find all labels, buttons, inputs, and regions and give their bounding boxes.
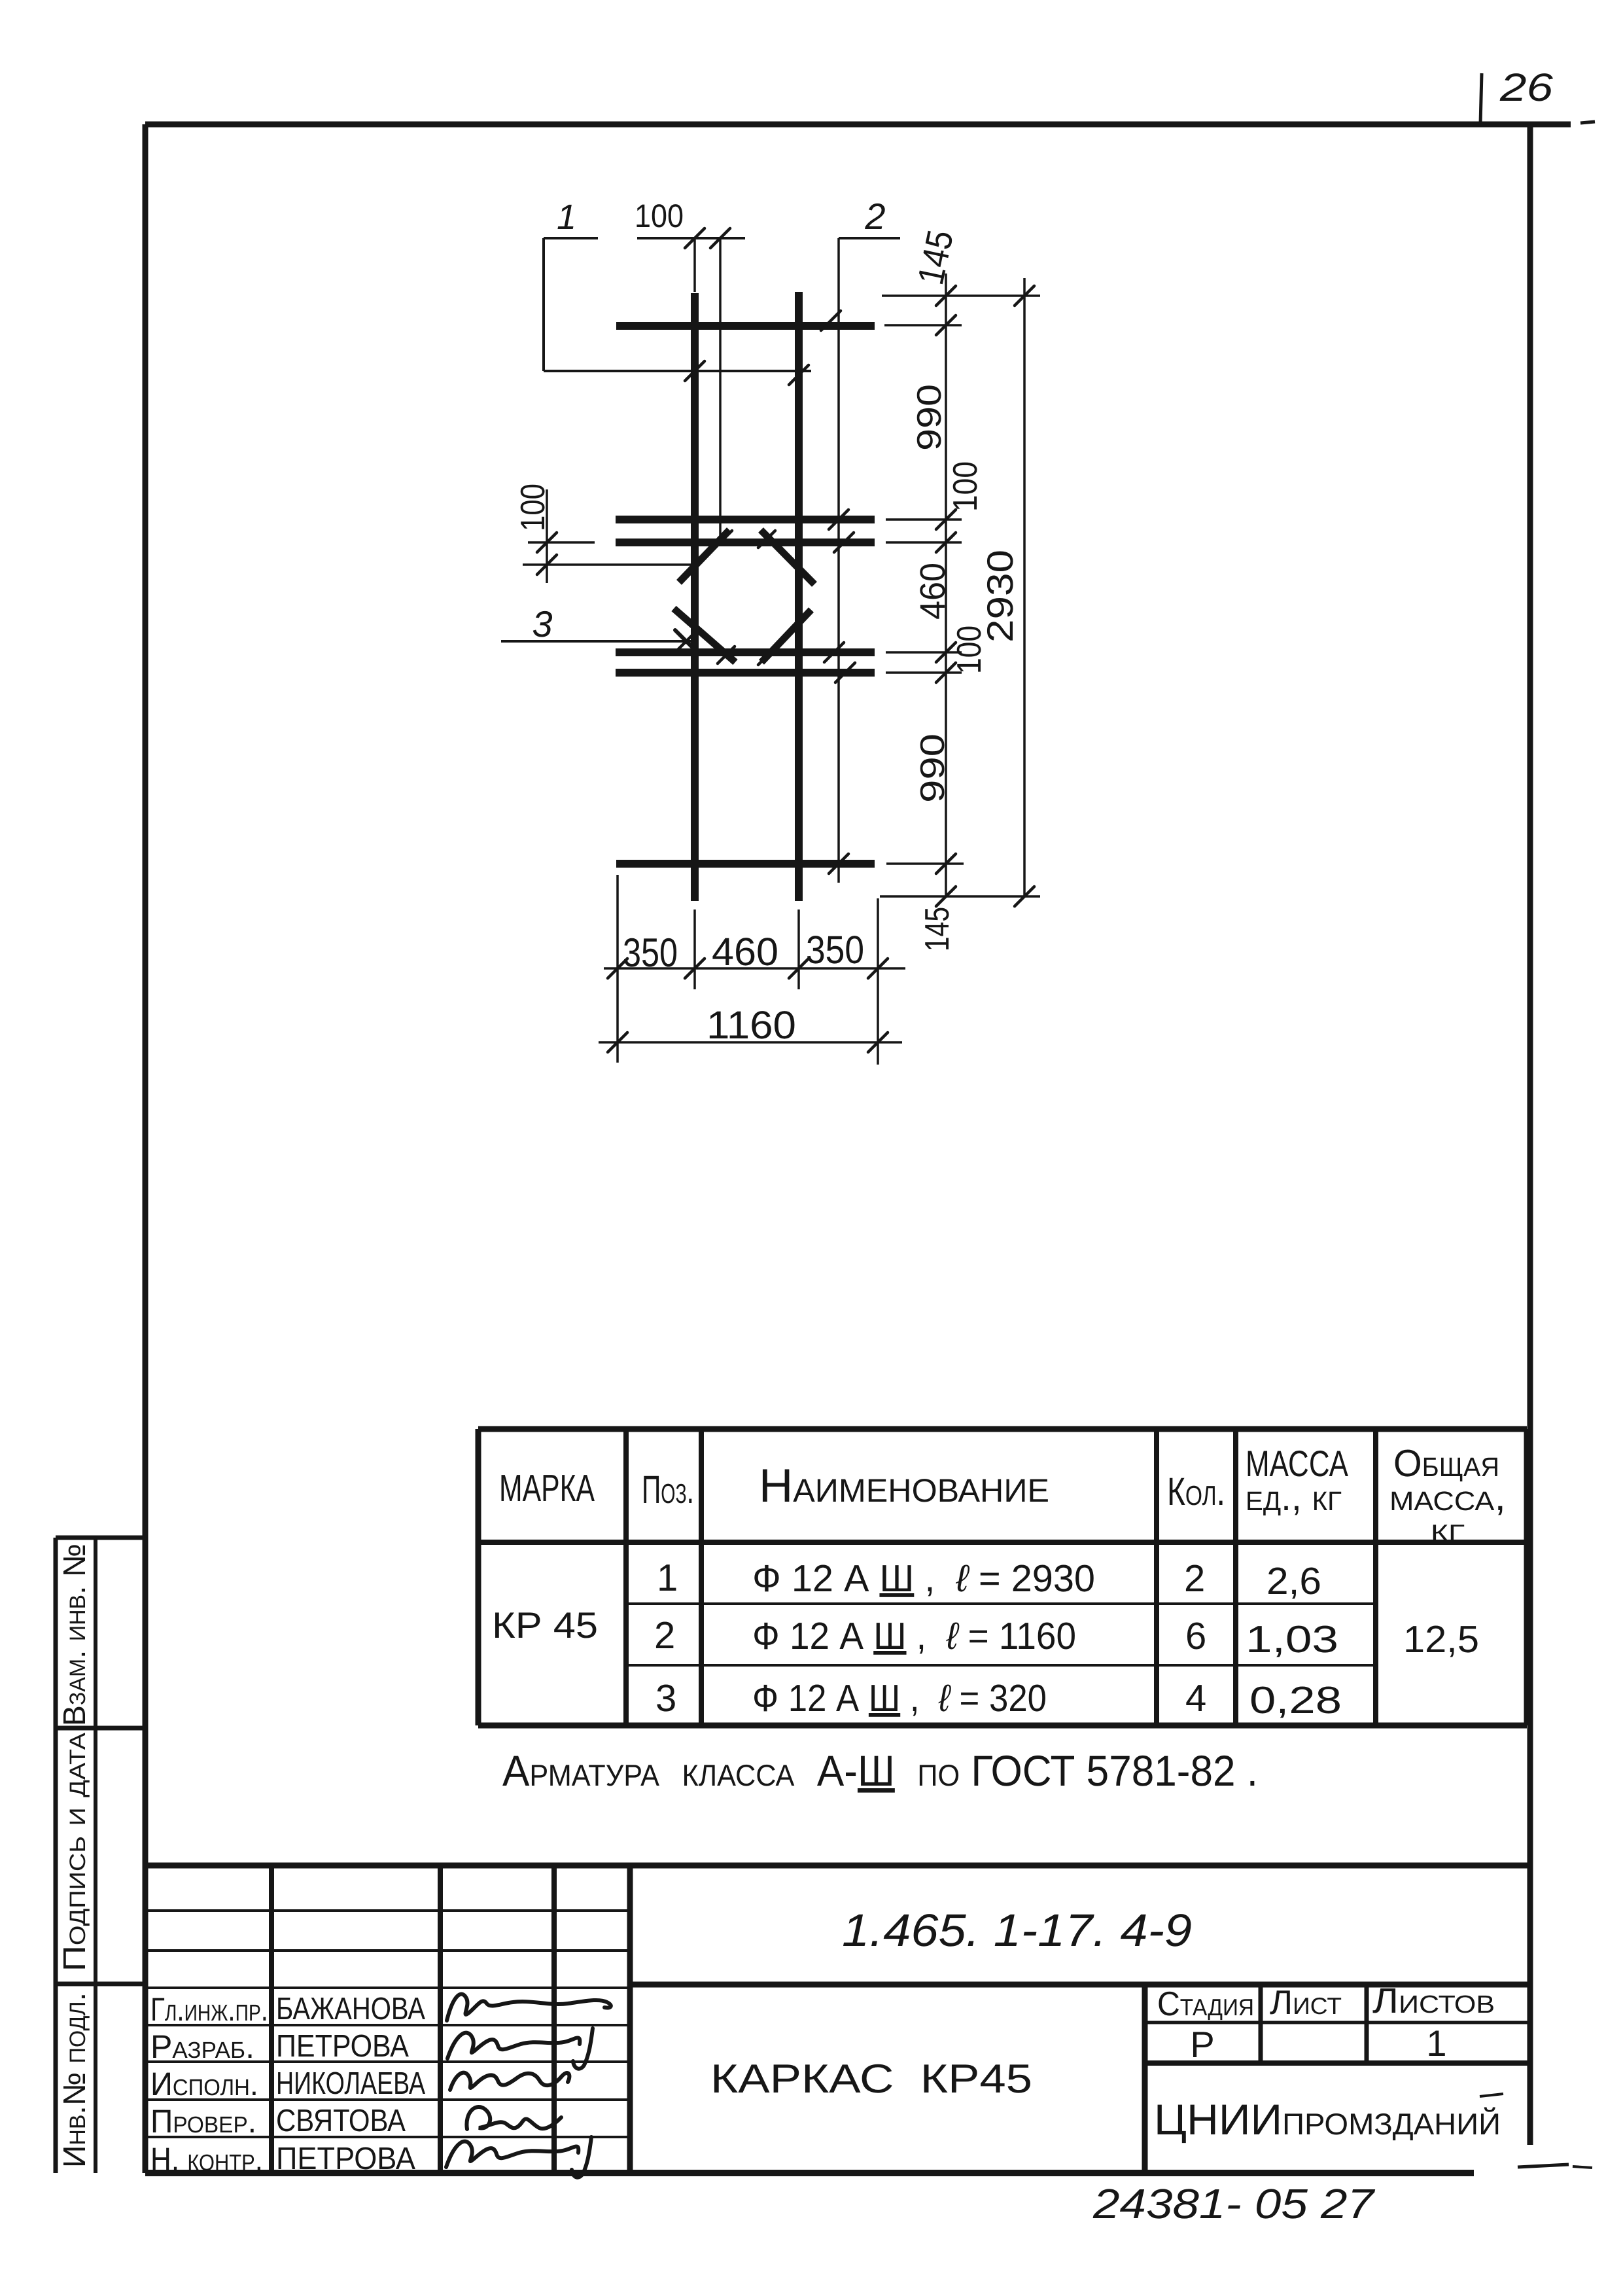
- callout 3 leader line: [501, 640, 693, 643]
- rebar pos.2 top horizontal bar: [616, 322, 875, 330]
- left stamp column divider: [94, 1538, 97, 2173]
- extension line hook offset: [719, 238, 722, 539]
- extension line from left bar top: [693, 238, 696, 292]
- border frame right edge: [1527, 122, 1533, 2145]
- extension line left bar bottom: [693, 910, 696, 989]
- left stamp divider line 1: [56, 1726, 145, 1731]
- title block thin row line 1: [145, 1909, 630, 1912]
- table left border: [476, 1429, 481, 1725]
- callout 2 tick at bar A: [829, 510, 848, 529]
- tick 1160 left: [608, 1033, 627, 1052]
- svg-text:Инв.№ подл.: Инв.№ подл.: [58, 1992, 92, 2168]
- title block row line Провер.: [145, 2136, 630, 2138]
- svg-text:НИКОЛАЕВА: НИКОЛАЕВА: [276, 2066, 425, 2101]
- tick diagonal-bar junction lower-left: [718, 646, 735, 663]
- tick diagonal-bar junction upper-right: [758, 531, 775, 548]
- tick chain bar A: [936, 510, 956, 529]
- svg-text:Лист: Лист: [1270, 1984, 1342, 2022]
- tick chain bottom 145: [936, 887, 956, 906]
- callout 2 tick at bar B: [834, 533, 854, 552]
- dimension line 350-460-350: [604, 967, 905, 970]
- title block row line Разраб.: [145, 2060, 630, 2063]
- svg-text:2: 2: [864, 196, 885, 237]
- title block top border: [145, 1863, 1530, 1869]
- svg-text:2: 2: [1184, 1557, 1205, 1600]
- svg-text:БАЖАНОВА: БАЖАНОВА: [276, 1992, 425, 2026]
- svg-text:КР 45: КР 45: [492, 1604, 598, 1646]
- tick chain bar D: [936, 663, 956, 682]
- border frame top edge: [145, 122, 1571, 128]
- callout 1 tick at left bar: [685, 361, 705, 381]
- signature Петровой (Разраб.): [447, 2028, 593, 2069]
- tick chain bar B: [936, 533, 956, 552]
- extension line bar B left: [528, 541, 595, 544]
- svg-text:Подпись и дата: Подпись и дата: [58, 1733, 92, 1971]
- svg-text:КАРКАС КР45: КАРКАС КР45: [710, 2057, 1032, 2102]
- svg-text:МАРКА: МАРКА: [499, 1467, 595, 1510]
- title block row line Исполн.: [145, 2098, 630, 2101]
- extension line bar D: [886, 671, 962, 674]
- title block vertical Лист-Листов: [1365, 1985, 1369, 2063]
- right chain dimension line: [945, 274, 947, 896]
- table bottom border: [478, 1723, 1527, 1729]
- callout 1 tick at right bar: [789, 365, 809, 385]
- svg-text:350: 350: [623, 930, 678, 976]
- left stamp column top line: [56, 1536, 145, 1540]
- callout 2 tick at bar D: [835, 663, 855, 682]
- table column line after Поз.: [699, 1429, 704, 1725]
- title block vertical after names: [438, 1865, 443, 2173]
- extension line bars bottom end: [880, 895, 1040, 898]
- extension line bars top end: [882, 294, 1040, 297]
- svg-text:Гл.инж.пр.: Гл.инж.пр.: [150, 1991, 268, 2028]
- table row divider 2: [626, 1664, 1376, 1667]
- svg-text:Провер.: Провер.: [150, 2103, 256, 2140]
- extension line bar C: [886, 651, 962, 654]
- table header bottom line: [478, 1540, 1527, 1545]
- right overall dimension line: [1023, 278, 1026, 896]
- svg-text:кг: кг: [1431, 1511, 1465, 1549]
- svg-text:3: 3: [655, 1677, 676, 1720]
- svg-text:1160: 1160: [707, 1003, 796, 1047]
- rebar pos.3 upper-left diagonal: [679, 530, 729, 582]
- rebar pos.2 horizontal bar D: [616, 669, 875, 677]
- title block line under document number: [630, 1982, 1530, 1988]
- svg-text:Поз.: Поз.: [642, 1468, 694, 1511]
- svg-text:1: 1: [657, 1557, 678, 1599]
- table column line after МАРКА: [623, 1429, 629, 1725]
- svg-text:Ф 12 А Ш , ℓ = 1160: Ф 12 А Ш , ℓ = 1160: [752, 1615, 1076, 1657]
- tick chain bottom bar: [936, 854, 956, 874]
- tick diagonal-bar junction lower-right: [758, 648, 775, 665]
- tick overall bottom: [1015, 887, 1034, 906]
- svg-text:ед., кг: ед., кг: [1246, 1476, 1342, 1519]
- table top border: [478, 1426, 1527, 1432]
- svg-text:Листов: Листов: [1372, 1981, 1495, 2021]
- svg-text:Н. контр.: Н. контр.: [150, 2141, 263, 2178]
- tick chain bar C: [936, 643, 956, 662]
- rebar pos.3 upper-right diagonal: [761, 530, 814, 584]
- svg-text:1.465. 1-17. 4-9: 1.465. 1-17. 4-9: [842, 1905, 1192, 1956]
- rebar pos.3 lower-right diagonal: [761, 610, 811, 662]
- rebar pos.3 lower-left diagonal: [674, 609, 735, 662]
- dimension line 100 left vertical: [546, 489, 548, 583]
- left stamp divider line 2: [56, 1982, 145, 1987]
- title block vertical main divider: [627, 1865, 633, 2173]
- svg-text:Наименование: Наименование: [759, 1460, 1049, 1512]
- svg-text:ПЕТРОВА: ПЕТРОВА: [276, 2142, 415, 2176]
- rebar pos.2 horizontal bar B: [616, 539, 875, 546]
- svg-text:1: 1: [557, 198, 576, 237]
- svg-text:100: 100: [635, 198, 684, 234]
- title block vertical after drawing title: [1142, 1985, 1148, 2173]
- tick 1160 right: [868, 1033, 888, 1052]
- rebar pos.1 left vertical bar: [691, 293, 699, 901]
- svg-text:1: 1: [1426, 2022, 1446, 2064]
- sheet number tick mark: [1480, 73, 1482, 124]
- svg-text:Ф 12 А Ш , ℓ = 320: Ф 12 А Ш , ℓ = 320: [752, 1677, 1047, 1720]
- svg-text:Р: Р: [1190, 2024, 1214, 2065]
- svg-text:2930: 2930: [979, 550, 1021, 643]
- rebar pos.2 horizontal bar C: [616, 648, 875, 656]
- callout 1 leader horizontal bottom: [544, 370, 811, 372]
- callout 2 tick at bottom bar: [829, 854, 848, 874]
- svg-text:0,28: 0,28: [1249, 1679, 1342, 1722]
- title block thin row line 2: [145, 1949, 630, 1952]
- svg-text:2,6: 2,6: [1266, 1560, 1321, 1602]
- svg-text:6: 6: [1185, 1615, 1206, 1657]
- svg-text:Разраб.: Разраб.: [150, 2028, 254, 2065]
- svg-text:12,5: 12,5: [1403, 1618, 1479, 1661]
- callout 2 leader horizontal: [839, 237, 900, 239]
- tick 350 right b: [868, 959, 888, 978]
- extension line bar B: [886, 541, 962, 544]
- extension line bottom bar: [886, 862, 964, 865]
- title block line under stage row: [1145, 2060, 1530, 2066]
- rebar pos.1 right vertical bar: [795, 292, 803, 901]
- table right border: [1524, 1429, 1530, 1725]
- border frame top edge dash: [1580, 122, 1595, 123]
- border frame left edge: [143, 124, 148, 2173]
- tick 100 left upper: [537, 533, 557, 552]
- svg-text:ПЕТРОВА: ПЕТРОВА: [276, 2029, 409, 2064]
- svg-text:145: 145: [909, 226, 961, 288]
- svg-text:990: 990: [911, 384, 949, 451]
- svg-text:СВЯТОВА: СВЯТОВА: [276, 2104, 406, 2138]
- title block vertical after role labels: [269, 1865, 274, 2173]
- dimension line 1160: [599, 1041, 902, 1044]
- tick 100 left lower: [537, 555, 557, 574]
- rebar pos.2 bottom horizontal bar: [616, 860, 875, 868]
- svg-text:Кол.: Кол.: [1167, 1470, 1225, 1513]
- signature Николаевой: [450, 2073, 569, 2090]
- title block thin row line 3: [145, 1987, 630, 1989]
- svg-text:2: 2: [654, 1614, 675, 1657]
- svg-text:145: 145: [918, 907, 956, 951]
- callout 3 cross tick b: [675, 630, 697, 652]
- title block vertical Стадия-Лист: [1259, 1985, 1263, 2063]
- tick 100 top right: [710, 228, 730, 248]
- svg-text:24381- 05 27: 24381- 05 27: [1092, 2180, 1376, 2227]
- svg-text:Стадия: Стадия: [1157, 1985, 1254, 2023]
- tick 460 right: [789, 959, 809, 978]
- table row divider 1: [626, 1602, 1376, 1605]
- svg-text:Арматура класса А-Ш по ГОСТ: Арматура класса А-Ш по ГОСТ 5781-82 .: [502, 1746, 1258, 1795]
- svg-text:Исполн.: Исполн.: [150, 2066, 258, 2102]
- border frame bottom dash 1: [1518, 2164, 1569, 2167]
- svg-text:1,03: 1,03: [1246, 1618, 1338, 1661]
- svg-text:460: 460: [712, 930, 778, 974]
- svg-text:350: 350: [806, 928, 864, 972]
- title block vertical after signatures: [551, 1865, 557, 2173]
- svg-text:Взам. инв. №: Взам. инв. №: [58, 1544, 92, 1726]
- tick 100 top left: [685, 228, 705, 248]
- border frame bottom edge: [145, 2170, 1474, 2176]
- table column line after МАССА: [1373, 1429, 1378, 1725]
- title block row line Гл.инж.пр.: [145, 2024, 630, 2026]
- extension line hook left: [523, 563, 691, 566]
- border frame bottom dash 2: [1573, 2166, 1592, 2168]
- macron over organization name: [1480, 2094, 1503, 2096]
- signature Петровой (Н.контр.): [446, 2137, 591, 2178]
- svg-text:990: 990: [914, 733, 952, 803]
- extension line bar A: [886, 518, 962, 521]
- callout 1 leader horizontal top: [544, 237, 598, 239]
- svg-text:460: 460: [913, 563, 952, 620]
- title block line under Стадия header: [1145, 2021, 1530, 2024]
- table column line after Наименование: [1154, 1429, 1159, 1725]
- table column line after Кол.: [1233, 1429, 1238, 1725]
- dimension line 100 top: [637, 237, 745, 239]
- tick chain top 145 start: [936, 286, 956, 306]
- svg-text:Ф 12 А Ш , ℓ = 2930: Ф 12 А Ш , ℓ = 2930: [752, 1557, 1095, 1600]
- tick diagonal-bar junction upper-left: [715, 531, 732, 548]
- tick 350 left b: [685, 959, 705, 978]
- tick overall top: [1015, 286, 1034, 306]
- svg-text:ЦНИИпромзданий: ЦНИИпромзданий: [1154, 2095, 1501, 2144]
- callout 3 cross tick a: [675, 630, 697, 652]
- signature Святовой: [466, 2107, 561, 2129]
- extension line bars left end: [616, 875, 619, 1063]
- callout 1 leader vertical: [542, 238, 545, 371]
- extension line right bar bottom: [797, 910, 800, 989]
- signature Бажанова: [447, 1994, 611, 2021]
- svg-text:4: 4: [1185, 1677, 1206, 1720]
- tick 350 left a: [608, 959, 627, 978]
- callout 2 leader vertical: [837, 238, 840, 883]
- callout 2 tick at top bar: [821, 311, 841, 330]
- svg-text:3: 3: [532, 603, 552, 645]
- extension line top bar: [884, 324, 962, 327]
- svg-text:26: 26: [1499, 65, 1554, 109]
- tick chain 145 end: [936, 315, 956, 335]
- callout 2 tick at bar C: [824, 643, 844, 662]
- left stamp column outer edge: [54, 1538, 58, 2173]
- svg-text:100: 100: [947, 461, 985, 512]
- rebar pos.2 horizontal bar A: [616, 516, 875, 523]
- extension line bars right end: [877, 898, 879, 1065]
